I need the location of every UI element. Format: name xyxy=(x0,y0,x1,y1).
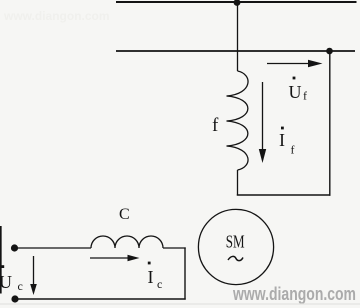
arrow Ic direction xyxy=(90,255,140,261)
wire bus1 to field coil xyxy=(237,2,239,71)
svg-text:c: c xyxy=(157,277,162,291)
label Uc xyxy=(0,265,23,293)
junction dot on bus 1 xyxy=(234,0,241,6)
arrow If (downward) xyxy=(259,82,266,163)
node dot left terminal xyxy=(11,244,18,251)
wire right side down xyxy=(184,247,186,299)
wire bottom return xyxy=(15,298,186,300)
wire coil f bottom xyxy=(237,170,239,196)
label Uf xyxy=(289,77,308,103)
bus line 2 xyxy=(116,50,355,52)
svg-text:U: U xyxy=(0,272,12,292)
wire field loop bottom xyxy=(237,194,331,196)
wire coil C to corner xyxy=(163,247,186,249)
bus line 1 (top) xyxy=(116,1,357,3)
arrow Uf direction xyxy=(267,60,323,67)
svg-text:www.diangon.com: www.diangon.com xyxy=(232,284,356,304)
svg-text:www.diangon.com: www.diangon.com xyxy=(3,9,110,23)
wire left terminal to coil C xyxy=(15,247,92,249)
svg-text:SM: SM xyxy=(226,232,245,252)
svg-text:U: U xyxy=(289,82,302,102)
inductor f xyxy=(227,71,249,170)
left cropped edge line xyxy=(0,226,2,294)
label Ic xyxy=(148,262,163,291)
svg-text:C: C xyxy=(119,206,130,223)
wire field loop right side xyxy=(329,51,331,196)
label If xyxy=(279,127,295,157)
faint page rule xyxy=(0,303,360,305)
tilde symbol xyxy=(228,256,243,260)
svg-text:I: I xyxy=(279,130,285,150)
inductor C xyxy=(91,236,163,248)
synchronous machine SM circle xyxy=(198,209,273,284)
arrow Uc (downward) xyxy=(30,256,37,295)
svg-text:f: f xyxy=(303,89,307,103)
svg-text:I: I xyxy=(148,267,154,287)
svg-text:f: f xyxy=(212,115,219,136)
svg-text:c: c xyxy=(18,279,23,293)
junction dot on bus 2 xyxy=(326,48,333,55)
node dot bottom terminal xyxy=(11,295,18,302)
svg-text:f: f xyxy=(291,143,295,157)
